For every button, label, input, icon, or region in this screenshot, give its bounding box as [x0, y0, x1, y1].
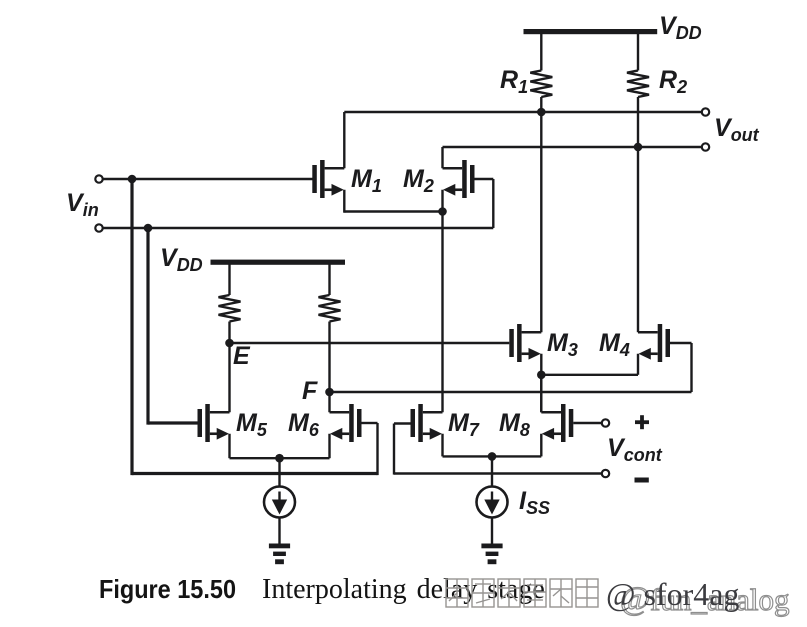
terminal Vin+ — [95, 175, 102, 182]
wire node F to M4 gate riser — [330, 391, 692, 393]
node dot tail M7 M8 — [488, 452, 497, 461]
VDD rail second — [211, 260, 346, 265]
node dot Vin+ bus — [128, 175, 137, 184]
svg-text:M5: M5 — [236, 409, 268, 440]
wire Vin+ to M1 gate — [103, 178, 314, 180]
svg-text:R2: R2 — [659, 66, 687, 97]
wire Vin- line — [103, 227, 493, 229]
transistor M6 — [330, 404, 362, 442]
resistor R1 — [540, 33, 542, 71]
svg-text:@ sfor4ag: @ sfor4ag — [606, 576, 739, 612]
svg-text:VDD: VDD — [659, 12, 702, 43]
node dot E — [225, 339, 234, 348]
wire Vin- bus vertical — [146, 228, 149, 425]
svg-text:M6: M6 — [288, 409, 320, 440]
transistor M4 — [638, 324, 670, 362]
transistor M7 — [411, 404, 443, 442]
wire tail M7M8 to current source — [491, 456, 493, 487]
wire M8 drain riser — [540, 375, 542, 412]
svg-text:M8: M8 — [499, 409, 530, 440]
plus sign — [635, 420, 649, 424]
terminal Vin- — [95, 224, 102, 231]
terminal Vcont- — [602, 470, 609, 477]
svg-text:ISS: ISS — [519, 487, 550, 518]
wire M7 source drop — [441, 434, 443, 457]
wire tail M5M6 to current source — [278, 458, 280, 487]
svg-text:M3: M3 — [547, 329, 578, 360]
node dot R1 drain — [537, 108, 546, 117]
terminal Vout+ — [702, 108, 709, 115]
wire M3 source drop — [540, 354, 542, 375]
wire node E to M3 gate — [230, 342, 510, 344]
wire M4 gate riser — [690, 343, 692, 392]
wire crossunder Vin+ to M6 gate — [132, 472, 378, 475]
wire M2 source drop — [441, 190, 443, 213]
wire M1 source drop — [343, 190, 345, 213]
svg-text:R1: R1 — [500, 66, 528, 97]
wire M8 source drop — [540, 434, 542, 457]
node dot tail M5 M6 — [275, 454, 284, 463]
wire M5 gate from bus — [148, 421, 198, 424]
node dot R2 drain — [634, 143, 643, 152]
node dot F — [325, 388, 334, 397]
node dot tail M1 M2 — [438, 207, 447, 216]
resistor at F — [328, 264, 330, 295]
wire M6 gate riser — [376, 423, 378, 475]
wire tail column to M7 drain — [441, 212, 443, 413]
terminal Vcont+ — [602, 419, 609, 426]
wire M2 drain riser — [441, 147, 443, 168]
svg-text:M4: M4 — [599, 329, 630, 360]
wire M3 M4 common source — [541, 374, 638, 376]
svg-text:F: F — [302, 377, 318, 405]
wire M7 M8 common source — [443, 455, 542, 457]
wire current source to ground — [278, 517, 280, 544]
terminal Vout- — [702, 143, 709, 150]
wire M7 gate stub — [394, 422, 411, 424]
wire M8 gate to Vcont+ — [573, 422, 601, 424]
watermark CJK glyph boxes — [446, 579, 598, 607]
resistor R2 — [637, 33, 639, 71]
svg-text:Figure 15.50: Figure 15.50 — [99, 574, 236, 604]
svg-text:M1: M1 — [351, 165, 382, 196]
wire M4 gate stub — [670, 342, 692, 344]
wire M1 drain riser — [343, 112, 345, 168]
svg-text:VDD: VDD — [160, 244, 203, 275]
svg-text:Vout: Vout — [714, 114, 760, 145]
wire M1 M2 common source — [344, 210, 442, 212]
transistor M5 — [198, 404, 230, 442]
wire M5 source drop — [228, 434, 230, 458]
wire ISS to ground — [491, 517, 493, 544]
wire Vin+ bus vertical — [130, 179, 133, 475]
current source ISS — [477, 487, 508, 518]
VDD rail top — [524, 29, 658, 34]
node dot Vin- bus — [144, 224, 153, 233]
svg-text:M2: M2 — [403, 165, 434, 196]
wire M6 gate stub — [362, 422, 378, 424]
current source I1 — [264, 487, 295, 518]
resistor at E — [228, 264, 230, 295]
transistor M8 — [541, 404, 573, 442]
wire M4 source drop — [637, 354, 639, 375]
wire node X to Vout+ — [344, 111, 701, 113]
wire M5 M6 common source — [230, 457, 330, 459]
transistor M1 — [312, 160, 344, 198]
wire tail column to M8 drain — [540, 375, 542, 412]
wire M7 gate riser — [393, 424, 395, 475]
wire M7 gate line to Vcont- — [394, 472, 602, 474]
wire F column — [328, 322, 330, 413]
ground left — [269, 544, 290, 565]
wire M3 drain riser — [540, 112, 542, 332]
wire M6 source drop — [328, 434, 330, 458]
wire E column — [228, 322, 230, 413]
transistor M2 — [443, 160, 475, 198]
wire node Y to Vout- — [443, 146, 702, 148]
wire M2 gate riser — [492, 179, 494, 228]
wire M2 gate stub — [475, 178, 494, 180]
node dot tail M3 M4 — [537, 371, 546, 380]
svg-text:M7: M7 — [448, 409, 480, 440]
ground right — [481, 544, 502, 565]
svg-text:Vin: Vin — [66, 189, 99, 220]
svg-text:E: E — [233, 342, 251, 370]
transistor M3 — [509, 324, 541, 362]
wire M4 drain riser — [637, 147, 639, 332]
svg-text:Vcont: Vcont — [607, 434, 663, 465]
minus sign — [635, 478, 649, 483]
